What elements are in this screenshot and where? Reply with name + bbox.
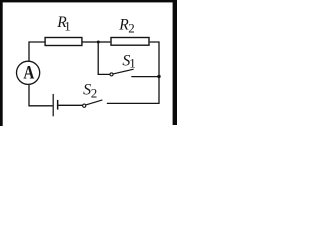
wire: junction to R2 left (98, 41, 110, 43)
switch S2 blade (86, 100, 103, 105)
svg-text:2: 2 (91, 85, 98, 100)
svg-text:A: A (23, 62, 34, 83)
svg-text:1: 1 (64, 19, 71, 34)
ammeter A (circle) (17, 61, 40, 84)
wire: R1 right to junction node (83, 41, 99, 43)
svg-text:2: 2 (128, 21, 135, 36)
frame left border (0, 0, 3, 126)
node junction dot (between R1 and R2) (97, 41, 100, 44)
battery cell: long plate (+) (52, 94, 54, 116)
switch S1 pivot contact (110, 73, 113, 76)
svg-text:1: 1 (129, 56, 136, 71)
wire: ammeter top to R1 left (29, 42, 45, 61)
wire: ammeter bottom to battery (29, 85, 53, 106)
wire: battery to S2 pivot (58, 104, 82, 106)
switch S2 pivot contact (83, 104, 86, 107)
battery cell: short plate (-) (57, 100, 59, 110)
node junction dot (right side) (157, 75, 160, 78)
wire: junction down to switch S1 (98, 42, 110, 74)
frame top border (0, 0, 177, 2)
resistor R2 (111, 38, 149, 46)
switch S1 blade (113, 69, 134, 74)
resistor R1 (45, 38, 82, 46)
wire: S1 fixed contact to right side (131, 76, 159, 78)
frame right border (173, 0, 177, 125)
wire: R2 right, down right side to S1 node (150, 42, 159, 77)
wire: right side down to S2 fixed contact (107, 77, 159, 104)
